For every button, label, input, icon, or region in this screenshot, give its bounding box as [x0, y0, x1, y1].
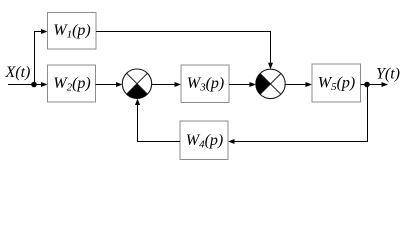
block W5	[312, 64, 361, 102]
node output branch dot	[364, 82, 370, 88]
node input branch dot	[31, 82, 37, 88]
label Y(t)	[376, 65, 400, 82]
wire W4 output to summer S1 bottom	[135, 99, 180, 142]
svg-text:W1(p): W1(p)	[53, 22, 90, 41]
block W2	[48, 65, 96, 102]
block W3	[181, 65, 229, 103]
svg-text:W2(p): W2(p)	[53, 75, 90, 94]
wire input X(t) to W2	[8, 82, 48, 87]
wire W5 output to Y(t)	[361, 82, 389, 87]
wire W3 output to summer S2	[229, 82, 256, 87]
summer S1 (bottom quadrant filled)	[122, 69, 151, 98]
svg-text:W5(p): W5(p)	[318, 75, 355, 94]
svg-text:W4(p): W4(p)	[186, 132, 223, 151]
label X(t)	[5, 64, 31, 81]
summer S2 (left quadrant filled)	[256, 69, 285, 98]
wire W2 output to summer S1	[96, 82, 123, 87]
block W1	[48, 13, 97, 50]
svg-text:Y(t): Y(t)	[376, 65, 400, 82]
wire S2 output to W5	[285, 82, 312, 87]
wire S1 output to W3	[152, 82, 181, 87]
svg-text:W3(p): W3(p)	[187, 75, 224, 94]
svg-text:X(t): X(t)	[5, 64, 31, 81]
wire feedback from output node down to W4	[228, 85, 368, 145]
wire branch up to W1	[35, 29, 48, 85]
block W4	[180, 121, 228, 160]
wire W1 output to summer S2 top	[96, 32, 273, 70]
